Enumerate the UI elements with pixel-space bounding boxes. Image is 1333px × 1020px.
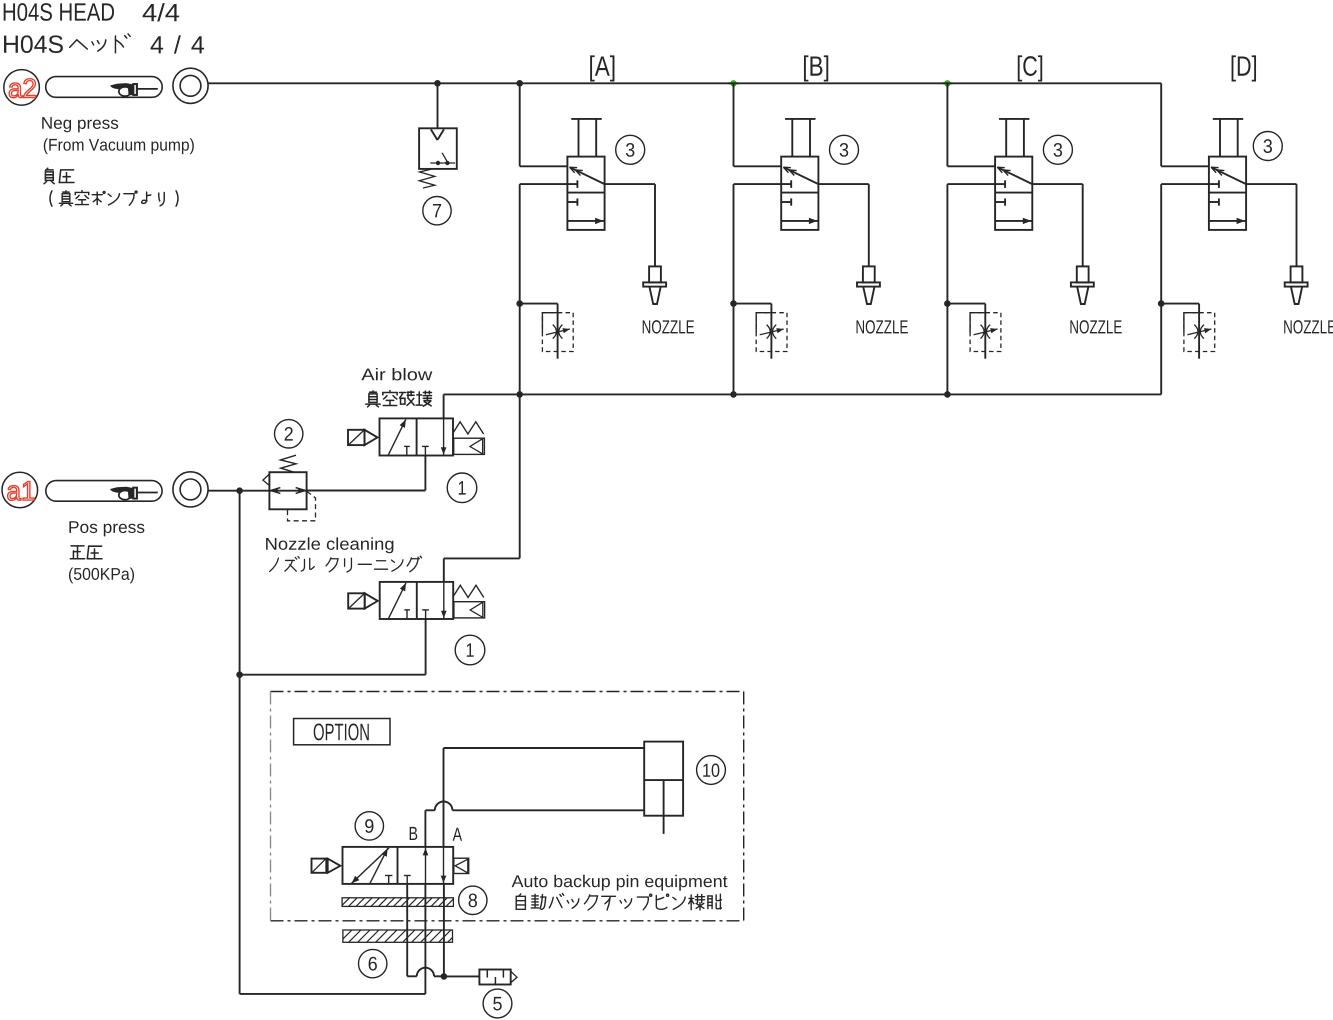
port a2 label — [9, 79, 36, 98]
wire A valve to nozzle — [605, 184, 655, 266]
regulator 2 body — [269, 472, 306, 509]
wire supply bottom horizontal — [240, 993, 426, 995]
valve 3 [D] flow arrow lower — [1209, 218, 1246, 224]
label NOZZLE [C] — [1070, 320, 1121, 333]
valve 3 [D] flow diagonal — [1211, 167, 1246, 184]
solenoid valve 1 nozzle-cleaning pilot box — [454, 602, 485, 618]
solenoid valve 9 crossover arrows — [352, 848, 390, 884]
valve 3 [D] body — [1209, 157, 1246, 230]
circle label 6 — [359, 949, 387, 977]
valve 3 [C] flow diagonal — [997, 167, 1032, 184]
plate 8 (backup pin plate) — [334, 898, 470, 907]
wire hop over supply — [417, 968, 444, 977]
regulator 2 drain dashed — [288, 492, 316, 521]
solenoid valve 1 nozzle-cleaning flow arrow open — [388, 583, 406, 619]
solenoid valve 9 port B arrow — [423, 847, 429, 884]
circle label 3 [A] — [616, 135, 645, 164]
label OPTION — [314, 723, 369, 740]
solenoid valve 9 blocked port right cell — [404, 876, 411, 884]
label Pos press — [69, 521, 144, 536]
valve 3 [B] plunger — [785, 119, 815, 157]
section label [A] — [590, 55, 614, 81]
label port B — [410, 827, 418, 840]
wire D top stub — [1161, 83, 1209, 166]
junction exhaust line — [441, 973, 448, 980]
wire valve9 A-exhaust down — [443, 884, 445, 977]
solenoid valve 1 air-blow blocked port left cell — [404, 446, 410, 455]
throttle valve [A] — [520, 304, 574, 359]
junction top wire to 7 — [434, 80, 441, 87]
wire nozzle-clean valve bottom — [240, 619, 426, 675]
label (From Vacuum pump) — [44, 138, 194, 154]
wire a1 to regulator — [208, 490, 269, 492]
circle label 8 — [459, 886, 487, 914]
solenoid valve 1 air-blow solenoid — [348, 430, 378, 445]
valve 3 [B] flow arrow lower — [781, 218, 818, 224]
valve 3 [C] plunger — [999, 119, 1029, 157]
title text H04S (katakana hedo) 4/4 — [4, 34, 204, 54]
solenoid valve 9 solenoid — [312, 859, 341, 873]
solenoid valve 9 pilot box — [454, 858, 469, 873]
option label box — [294, 719, 390, 745]
valve 3 [B] blocked port lower — [781, 198, 791, 205]
port a2 hand icon — [111, 84, 158, 97]
wire air-blow manifold — [444, 393, 1162, 395]
wire D mid vertical — [1160, 184, 1162, 394]
section label [B] — [804, 55, 828, 81]
junction D throttle branch — [1158, 300, 1165, 307]
circle label 10 — [697, 756, 726, 785]
solenoid valve 1 nozzle-cleaning blocked port right cell — [422, 610, 429, 619]
label shinkuu hakai (kanji) — [366, 391, 432, 407]
circle label 9 — [355, 812, 383, 840]
label fuatsu (kanji) — [44, 168, 74, 183]
nozzle [A] — [643, 266, 666, 304]
label (shinkuu pump yori) — [50, 191, 178, 207]
port a1 connector stadium — [46, 481, 162, 502]
regulator 2 relief triangle — [263, 474, 270, 486]
valve 3 [A] plunger — [571, 119, 601, 157]
label Neg press — [42, 117, 118, 132]
nozzle [B] — [857, 266, 880, 304]
circle label 5 — [483, 989, 512, 1018]
solenoid valve 1 nozzle-cleaning solenoid — [348, 593, 378, 608]
circle label 3 [C] — [1043, 135, 1072, 164]
solenoid valve 1 air-blow return spring — [454, 422, 484, 434]
solenoid valve 9 blocked port left cell — [385, 876, 392, 884]
wire B top stub — [734, 83, 782, 166]
label nozuru cleaning (katakana) — [270, 556, 422, 572]
port a1 double circle — [173, 472, 208, 507]
valve 3 [B] flow diagonal — [783, 167, 818, 184]
label jidou backup pin kinou (kanji) — [516, 894, 721, 911]
wire D valve to nozzle — [1246, 184, 1296, 266]
solenoid valve 1 air-blow blocked port right cell — [422, 446, 429, 455]
port a1 hand icon — [111, 487, 158, 500]
junction a1 supply — [236, 487, 243, 494]
section label [D] — [1232, 55, 1256, 81]
wire valve9 B to cylinder — [425, 802, 644, 847]
throttle valve [D] — [1161, 304, 1215, 359]
valve 3 [D] blocked port lower — [1209, 198, 1219, 205]
valve 3 [C] flow arrow lower — [995, 218, 1032, 224]
circle label 7 — [423, 197, 451, 225]
label NOZZLE [D] — [1284, 320, 1333, 333]
title text H04S HEAD 4/4 — [4, 3, 180, 21]
pressure switch 7 body — [419, 128, 457, 169]
cylinder 10 body — [644, 742, 683, 816]
solenoid valve 1 air-blow flow arrow open — [388, 419, 406, 455]
section label [C] — [1018, 55, 1042, 81]
junction C throttle branch — [944, 300, 951, 307]
valve 3 [D] blocked port upper — [1161, 180, 1219, 188]
valve 3 [D] plunger — [1213, 119, 1243, 157]
solenoid valve 1 air-blow exhaust arrow right cell — [441, 418, 447, 455]
solenoid valve 9 body — [343, 847, 454, 884]
regulator 2 flow arrows — [271, 488, 305, 494]
wire B valve to nozzle — [818, 184, 868, 266]
label NOZZLE [A] — [643, 320, 694, 333]
solenoid valve 1 nozzle-cleaning return spring — [454, 585, 484, 597]
valve 3 [C] body — [995, 157, 1032, 230]
label Air blow — [361, 368, 432, 380]
wire C mid vertical — [946, 184, 948, 394]
silencer 5 body — [479, 970, 517, 985]
wire C valve to nozzle — [1032, 184, 1082, 266]
valve 3 [A] body — [567, 157, 604, 230]
solenoid valve 1 nozzle-cleaning blocked port left cell — [404, 610, 410, 619]
solenoid valve 9 port A arrow — [441, 847, 447, 884]
wire A mid vertical — [519, 184, 521, 558]
valve 3 [B] blocked port upper — [734, 180, 792, 188]
throttle valve [C] — [947, 304, 1000, 359]
solenoid valve 1 air-blow body — [380, 418, 454, 455]
wire C top stub — [947, 83, 995, 166]
throttle valve [B] — [734, 304, 788, 359]
wire supply through valve9 — [424, 884, 426, 994]
valve 3 [C] blocked port upper — [947, 180, 1005, 188]
junction B throttle branch — [730, 300, 737, 307]
label NOZZLE [B] — [857, 320, 908, 333]
label Auto backup pin equipment — [512, 875, 728, 891]
wire B mid vertical — [733, 184, 735, 394]
wire nozzle-clean valve top — [444, 558, 520, 582]
nozzle [C] — [1071, 266, 1094, 304]
junction C air-blow line — [944, 391, 951, 398]
port a2 connector stadium — [46, 77, 163, 98]
port a1 label — [8, 482, 35, 501]
circle label 2 — [275, 420, 303, 448]
port a1 callout circle — [2, 472, 38, 508]
solenoid valve 1 nozzle-cleaning body — [380, 582, 454, 619]
port a2 callout circle — [4, 70, 40, 106]
pressure switch 7 spring — [419, 169, 435, 188]
port a2 double circle — [173, 68, 208, 103]
valve 3 [A] blocked port upper — [520, 180, 578, 188]
junction node B top (green) — [729, 80, 739, 88]
valve 3 [A] flow arrow lower — [567, 218, 604, 224]
wire valve9 port1 down — [407, 884, 417, 976]
junction A air-blow line — [516, 391, 523, 398]
wire A top stub — [520, 83, 568, 166]
pressure switch 7 seat V — [431, 129, 444, 140]
circle label 3 [D] — [1253, 132, 1282, 161]
label (500KPa) — [69, 567, 134, 583]
junction A throttle branch — [516, 300, 523, 307]
valve 3 [A] blocked port lower — [567, 198, 577, 205]
solenoid valve 1 nozzle-cleaning exhaust arrow right cell — [441, 582, 447, 619]
circle label 1 air-blow — [447, 473, 477, 503]
option enclosure box — [271, 692, 744, 921]
junction node C top (green) — [942, 80, 952, 88]
junction B air-blow line — [730, 391, 737, 398]
wire top main — [208, 82, 1161, 84]
label Nozzle cleaning — [266, 537, 393, 553]
wire air-blow valve out-bottom — [307, 456, 426, 491]
wire valve9 A to cylinder — [444, 748, 645, 847]
pressure switch 7 contact — [430, 153, 455, 165]
label seiatsu (kanji) — [70, 546, 102, 559]
wire to silencer 5 — [444, 975, 479, 977]
cylinder 10 rod — [663, 780, 665, 834]
wire to pressure switch 7 — [437, 83, 439, 128]
circle label 1 nozzle-clean — [455, 635, 485, 665]
regulator 2 spring — [281, 455, 297, 472]
wire regulator internal — [269, 490, 306, 492]
solenoid valve 1 air-blow pilot box — [454, 438, 485, 454]
valve 3 [B] body — [781, 157, 818, 230]
valve 3 [A] flow diagonal — [570, 167, 605, 184]
wire supply left vertical — [239, 491, 241, 994]
circle label 3 [B] — [830, 135, 859, 164]
valve 3 [C] blocked port lower — [995, 198, 1005, 205]
junction node A top — [516, 80, 523, 87]
nozzle [D] — [1285, 266, 1308, 304]
label port A — [453, 828, 462, 841]
junction nozzle-clean to supply — [236, 671, 243, 678]
plate 6 (board) — [331, 930, 469, 942]
wire air-blow valve out-top — [443, 394, 445, 418]
